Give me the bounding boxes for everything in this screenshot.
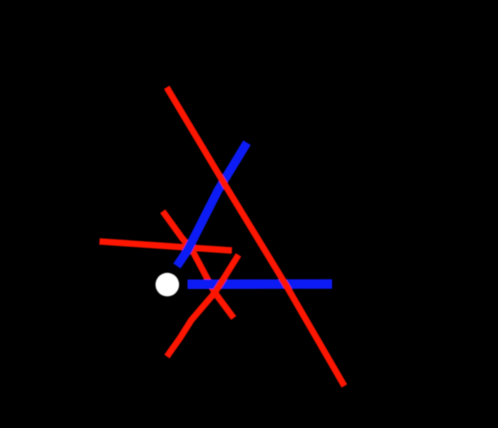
red stroke C (near-horizontal, lower left) — [100, 241, 232, 250]
blue stroke diagonal — [177, 143, 247, 266]
red stroke B (diagonal down-right, center) — [163, 211, 234, 318]
red stroke A (long diagonal) — [167, 87, 345, 386]
red stroke D (diagonal up-right, lower center) — [167, 255, 239, 357]
white dot — [156, 273, 180, 297]
blue stroke horizontal — [188, 279, 333, 289]
